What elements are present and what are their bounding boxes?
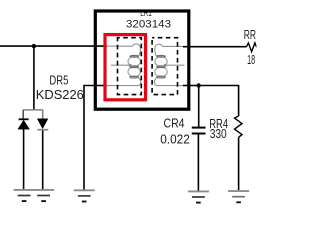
ground at left winding return <box>74 190 95 201</box>
coil turn: bottom exit arc <box>133 78 141 86</box>
resistor RR (horizontal zigzag, clipped at pane edge) <box>247 43 257 52</box>
pin stub top (gray) <box>163 45 184 47</box>
wire: capacitor to ground <box>197 135 199 191</box>
junction node dot <box>32 44 36 48</box>
capacitor CR4 bottom plate <box>192 133 206 135</box>
wire: stub to left diode <box>22 110 24 119</box>
wire: left diode to ground <box>23 129 25 190</box>
red highlight rectangle over primary winding <box>105 35 146 100</box>
ground under left diode <box>14 190 35 201</box>
wire: junction right to RR4 column <box>199 86 239 117</box>
coil turn: middle circle 2 <box>155 67 167 77</box>
diode DR5-A (points up) cathode bar <box>19 118 29 120</box>
svg-text:330: 330 <box>210 127 227 141</box>
right winding: gray pin stubs and coil (mirrored) <box>154 44 184 85</box>
pin stub top (gray) <box>107 45 133 47</box>
pin stub bottom (gray) <box>163 85 184 87</box>
svg-text:0.022: 0.022 <box>160 132 190 146</box>
resistor RR4 zigzag <box>235 116 243 137</box>
wire: right diode to ground <box>42 131 44 191</box>
right winding center tap dot <box>164 64 167 67</box>
svg-text:RR: RR <box>244 28 256 42</box>
crossover ellipse 1 <box>130 55 139 57</box>
coil turn: top entry arc <box>133 44 141 56</box>
junction node dot <box>197 83 201 87</box>
svg-text:KDS226: KDS226 <box>36 88 84 102</box>
svg-text:18: 18 <box>247 53 255 67</box>
crossover ellipse 3 <box>130 76 139 78</box>
svg-text:3203143: 3203143 <box>126 18 171 30</box>
svg-text:CR4: CR4 <box>164 117 185 131</box>
ground under RR4 <box>228 191 249 202</box>
left winding center tap dot <box>129 64 132 67</box>
dashed box around left winding <box>118 38 142 95</box>
wire: left top net from edge to transformer <box>0 45 107 47</box>
svg-text:DR5: DR5 <box>49 73 68 87</box>
wire: RR4 to ground <box>238 137 240 190</box>
wire: right top pin out to resistor RR <box>183 46 247 48</box>
wire: left winding bottom pin out of box, down to ground <box>84 86 107 191</box>
coil turn: middle circle 1 <box>155 57 167 67</box>
center tap (gray) <box>111 64 130 66</box>
coil turn: middle circle 2 <box>128 67 140 77</box>
wire: T-bar over diodes <box>23 109 43 111</box>
diode DR5-B cathode bar <box>37 129 48 131</box>
left winding: gray pin stubs and coil <box>107 44 141 86</box>
crossover ellipse 3 <box>157 76 166 78</box>
crossover ellipse 2 <box>157 66 166 68</box>
crossover ellipse 1 <box>157 55 166 57</box>
wire: right bottom pin to junction and over to RR4 <box>183 85 199 87</box>
coil turn: middle circle 1 <box>128 57 140 67</box>
wire: vertical from junction down to diode pair <box>33 46 35 110</box>
pin stub bottom (gray) <box>107 85 133 87</box>
ground under CR4 <box>188 191 209 202</box>
coil turn: top entry arc <box>155 44 163 56</box>
capacitor CR4 top plate <box>192 127 206 129</box>
dashed box around right winding <box>152 38 177 95</box>
crossover ellipse 2 <box>130 66 139 68</box>
wire: stub to right diode <box>42 110 44 119</box>
transformer package box LR1 <box>95 11 189 109</box>
ground under right diode <box>33 190 54 201</box>
diode DR5-A triangle <box>18 120 30 129</box>
center tap (gray) <box>166 64 185 66</box>
wire: junction down to capacitor CR4 <box>198 86 200 127</box>
coil turn: bottom exit arc <box>154 78 162 86</box>
diode DR5-B (points down) triangle <box>37 119 48 129</box>
